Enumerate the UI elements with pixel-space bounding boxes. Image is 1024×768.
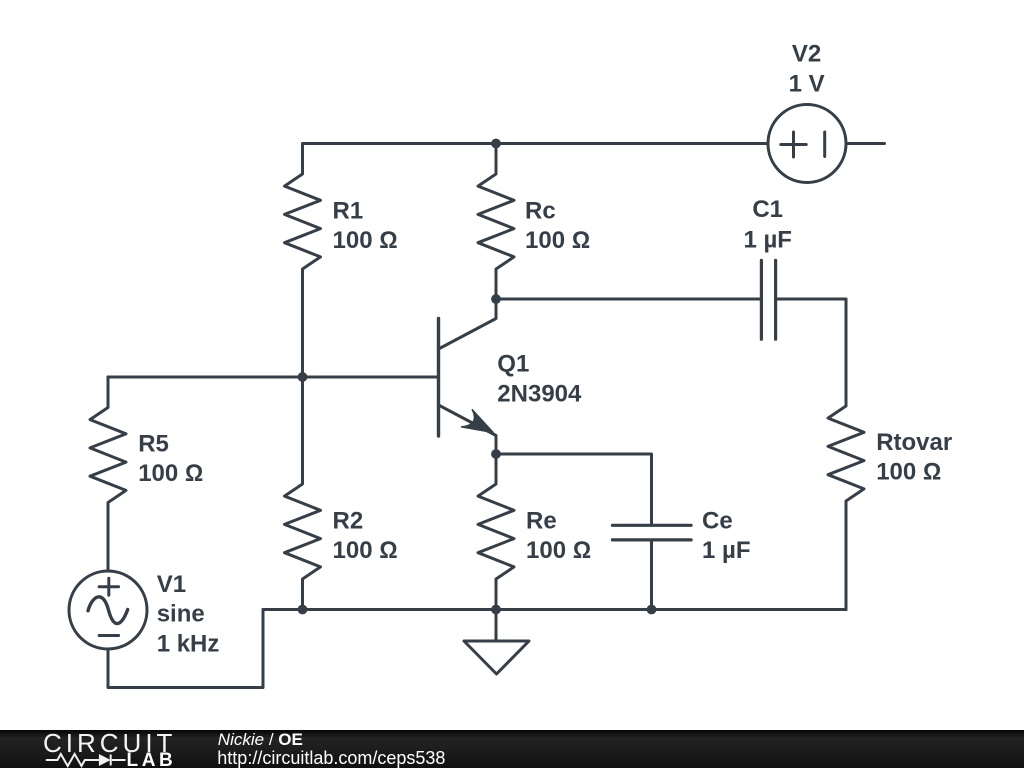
svg-text:1 µF: 1 µF: [702, 537, 751, 564]
V1 sine wave: [88, 597, 128, 624]
svg-text:R2: R2: [333, 508, 364, 535]
V1 plus sign: [99, 578, 119, 595]
node ground junction: [491, 605, 501, 615]
svg-text:1 µF: 1 µF: [743, 227, 792, 254]
label Q1: [497, 351, 582, 408]
svg-text:C1: C1: [752, 196, 783, 223]
svg-text:sine: sine: [157, 601, 205, 628]
label R5: [138, 431, 203, 488]
svg-text:Re: Re: [526, 508, 557, 535]
label V1: [157, 571, 220, 657]
label Rc: [525, 197, 590, 254]
ground symbol: [464, 641, 529, 674]
svg-text:V1: V1: [157, 571, 186, 598]
svg-text:100 Ω: 100 Ω: [138, 460, 203, 487]
V2 minus bar: [823, 132, 826, 157]
transistor Q1 emitter branch: [439, 405, 497, 454]
voltage source V1 circle: [69, 571, 147, 649]
resistor R2: [285, 377, 321, 610]
V2 plus sign: [781, 132, 806, 157]
label R1: [333, 197, 398, 254]
resistor R5: [90, 377, 126, 571]
svg-text:Q1: Q1: [497, 351, 529, 378]
url: [217, 749, 445, 767]
resistor Re: [478, 454, 514, 610]
capacitor C1: [761, 260, 775, 339]
node collector junction: [491, 294, 501, 304]
V1 minus sign: [99, 634, 119, 637]
svg-text:1 V: 1 V: [789, 71, 825, 98]
resistor Rc: [478, 144, 514, 300]
footer bar: [0, 730, 1024, 768]
label Re: [526, 508, 591, 565]
resistor Rtovar: [828, 299, 864, 610]
label V2: [789, 40, 825, 97]
wire V2 right terminal stub: [846, 142, 885, 145]
resistor R1: [285, 144, 321, 378]
svg-text:R5: R5: [138, 431, 169, 458]
transistor Q1 collector branch: [439, 299, 497, 349]
label Rtovar: [876, 429, 952, 486]
byline Nickie / OE: [218, 731, 303, 748]
wire collector node to C1 left plate: [496, 298, 761, 301]
wire base row from R5 column to Q1 base: [108, 376, 439, 379]
logo resistor-diode glyph: [0, 730, 200, 768]
transistor Q1 base bar: [437, 319, 440, 437]
svg-text:100 Ω: 100 Ω: [333, 227, 398, 254]
node base junction: [298, 372, 308, 382]
label R2: [333, 508, 398, 565]
svg-text:100 Ω: 100 Ω: [876, 459, 941, 486]
svg-text:V2: V2: [792, 40, 821, 67]
wire C1 right plate to Rtovar column: [776, 298, 846, 301]
label C1: [743, 196, 792, 253]
svg-text:1 kHz: 1 kHz: [157, 630, 220, 657]
svg-text:Ce: Ce: [702, 508, 733, 535]
capacitor Ce: [612, 525, 691, 540]
wire top rail from R1 top to V2 left terminal: [303, 142, 769, 145]
transistor Q1 emitter arrow: [462, 410, 494, 433]
label Ce: [702, 508, 751, 565]
svg-text:100 Ω: 100 Ω: [526, 537, 591, 564]
node emitter junction: [491, 449, 501, 459]
logo LAB text: [127, 751, 177, 768]
node Ce bottom junction: [647, 605, 657, 615]
wire V1 bottom loop: [108, 610, 263, 688]
svg-text:Rtovar: Rtovar: [876, 429, 952, 456]
wire bottom rail: [263, 608, 846, 611]
logo CIRCUIT text: [43, 730, 176, 756]
svg-text:Rc: Rc: [525, 197, 556, 224]
wire Ce bottom to bottom rail: [650, 540, 653, 610]
voltage source V2 circle: [768, 105, 846, 183]
svg-text:R1: R1: [333, 197, 364, 224]
node R2 bottom junction: [298, 605, 308, 615]
svg-text:100 Ω: 100 Ω: [525, 227, 590, 254]
svg-text:2N3904: 2N3904: [497, 380, 582, 407]
wire ground stub: [495, 610, 498, 642]
wire emitter node to Ce top: [496, 454, 652, 525]
node top rail / Rc junction: [491, 139, 501, 149]
svg-text:100 Ω: 100 Ω: [333, 537, 398, 564]
